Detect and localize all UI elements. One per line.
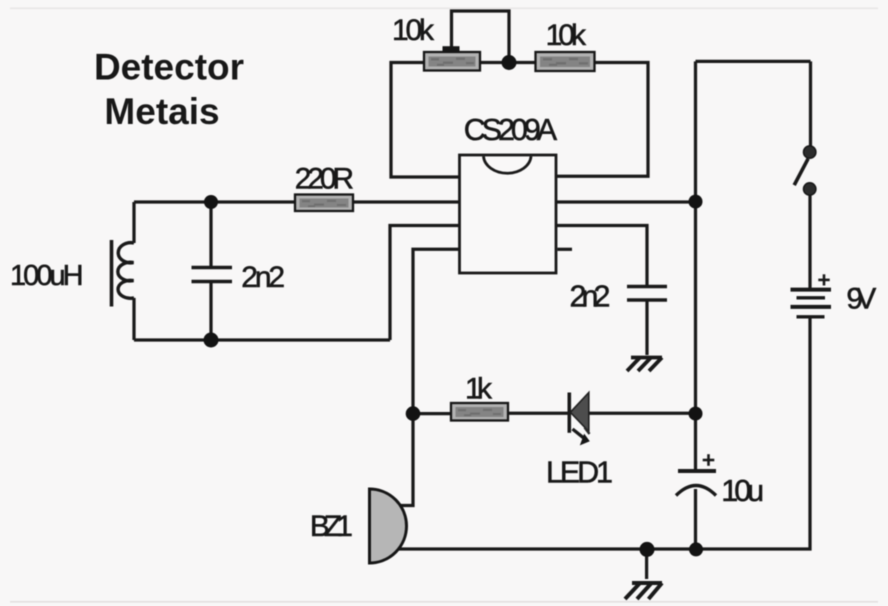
svg-text:100uH: 100uH — [10, 260, 84, 292]
svg-text:2n2: 2n2 — [241, 261, 285, 294]
svg-text:10u: 10u — [721, 474, 764, 508]
svg-text:BZ1: BZ1 — [310, 510, 353, 543]
svg-text:220R: 220R — [295, 163, 354, 196]
svg-text:Metais: Metais — [104, 91, 219, 132]
svg-text:10k: 10k — [546, 19, 587, 52]
svg-text:CS209A: CS209A — [464, 113, 558, 147]
svg-text:9V: 9V — [846, 283, 876, 316]
svg-text:LED1: LED1 — [546, 456, 613, 490]
svg-text:2n2: 2n2 — [570, 280, 611, 314]
svg-text:10k: 10k — [392, 14, 435, 47]
svg-text:Detector: Detector — [94, 47, 244, 88]
svg-text:1k: 1k — [465, 373, 493, 406]
